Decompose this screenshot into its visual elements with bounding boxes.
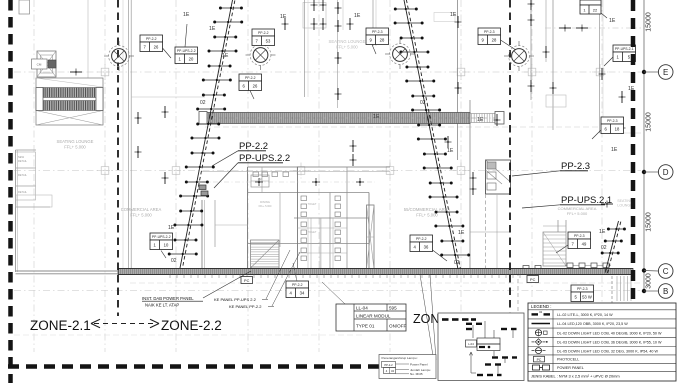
- svg-text:PC: PC: [530, 278, 536, 282]
- svg-text:1E: 1E: [373, 114, 380, 120]
- svg-text:FFL+ 5.000: FFL+ 5.000: [259, 205, 272, 208]
- svg-text:02: 02: [601, 245, 607, 251]
- detail dashes lower: [485, 363, 501, 365]
- label PP-2.2: [212, 141, 268, 166]
- photocell PC box left: [241, 277, 253, 284]
- wall verticals top-centre: [88, 0, 376, 108]
- note KE PANEL PP-UPS 2.2: [214, 297, 268, 302]
- svg-text:15000: 15000: [646, 212, 653, 232]
- grid markers: [97, 64, 608, 179]
- leader PP-2-2 mid: [250, 91, 254, 100]
- svg-text:KE PANEL PP-UPS 2.2: KE PANEL PP-UPS 2.2: [214, 297, 257, 302]
- svg-text:LEGEND :: LEGEND :: [531, 304, 552, 309]
- svg-text:FFL+ 5.000: FFL+ 5.000: [336, 45, 358, 50]
- detail box type-01 diagram: [438, 313, 524, 381]
- panel box PP-2-2 mid: [239, 74, 262, 91]
- leader PP-2-3 lower: [556, 245, 568, 253]
- panel box PP-2-3 right: [478, 28, 501, 45]
- svg-text:53: 53: [266, 39, 271, 44]
- svg-text:PP-UPS-2-1: PP-UPS-2-1: [615, 47, 634, 51]
- elevator shaft: [37, 51, 56, 77]
- svg-text:02: 02: [454, 260, 460, 266]
- detail bold dashes top: [442, 318, 476, 321]
- area text commercial left: [121, 207, 162, 218]
- travelator band upper: [199, 112, 504, 125]
- svg-text:DL-05 DOWN LIGHT LED COB, 32: DL-05 DOWN LIGHT LED COB, 32 DEG, 3000 K…: [557, 349, 658, 353]
- svg-text:1E: 1E: [354, 13, 361, 19]
- band tick marks: [170, 275, 534, 279]
- upper lights line: [545, 27, 641, 29]
- svg-text:INST. DAB POWER PANEL: INST. DAB POWER PANEL: [142, 296, 194, 301]
- dimension line right: [642, 0, 659, 293]
- legend box: [528, 303, 676, 381]
- svg-text:36: 36: [424, 245, 429, 250]
- svg-text:PC: PC: [244, 279, 250, 283]
- center room walls: [202, 167, 390, 269]
- grid horizontal faint line below band: [130, 282, 640, 284]
- zone boundary dashed line x118: [117, 0, 119, 316]
- svg-text:18: 18: [615, 127, 620, 132]
- note INST DAB POWER PANEL: [142, 296, 203, 308]
- legend symbol power panel: [533, 365, 550, 370]
- top-left corner room: [19, 0, 30, 14]
- legend texts: [557, 313, 662, 370]
- legend symbol LL-02: [532, 310, 551, 315]
- staircase center: [251, 240, 280, 268]
- svg-text:PP-2-3: PP-2-3: [484, 30, 495, 34]
- wall center-right verticals: [458, 0, 554, 268]
- wall top horizontal: [131, 96, 205, 98]
- svg-text:595: 595: [389, 306, 397, 311]
- panel box PP-2-3 above legend: [571, 285, 594, 302]
- svg-text:CM: CM: [37, 63, 42, 67]
- svg-text:No. MCB: No. MCB: [410, 372, 423, 376]
- zone arrow: [91, 319, 159, 328]
- right upper room lines: [543, 95, 566, 232]
- panel target marks: [199, 185, 208, 196]
- leader PP-2-3 right: [501, 40, 517, 50]
- wall light fixtures: [70, 0, 626, 208]
- grid horizontal line B: [14, 290, 640, 292]
- area text seating lounge left: [57, 139, 94, 150]
- leader lines to notes: [203, 250, 436, 360]
- svg-text:NEW: NEW: [18, 155, 25, 159]
- grid horizontal minor line: [205, 126, 600, 128]
- legend symbol LL-04: [532, 323, 551, 325]
- panel box PP-2-2 near diagonal: [410, 235, 433, 252]
- svg-text:49: 49: [582, 242, 587, 247]
- area text seating lounge top: [329, 39, 366, 50]
- svg-text:1E: 1E: [280, 14, 287, 20]
- svg-text:TOILET: TOILET: [308, 231, 317, 234]
- legend symbol PC: [534, 356, 545, 362]
- svg-text:FFL+ 5.000: FFL+ 5.000: [64, 145, 86, 150]
- svg-text:PP-2-2: PP-2-2: [146, 37, 157, 41]
- fixture tag labels: [168, 12, 635, 266]
- svg-text:PP-2-2: PP-2-2: [416, 237, 427, 241]
- svg-text:3000: 3000: [646, 273, 653, 289]
- svg-text:LL-04 LED,120 OBB, 3000 K, IP: LL-04 LED,120 OBB, 3000 K, IP20, 23,5 W: [557, 322, 628, 326]
- svg-text:C: C: [663, 267, 669, 276]
- detail dashes row2: [466, 323, 482, 325]
- border dashed right x633: [631, 0, 636, 300]
- panel box top-right partial: [580, 0, 607, 18]
- svg-text:02: 02: [420, 100, 426, 106]
- svg-text:D: D: [663, 168, 669, 177]
- panel box PP-2-2 (grid B2): [140, 35, 163, 52]
- diagonal wall right with lights: [394, 0, 471, 269]
- dashed partition below band: [517, 272, 519, 313]
- grid bubble E: [658, 65, 673, 80]
- photocell PC box right: [527, 276, 539, 283]
- note KE PANEL PP-2.2: [229, 304, 274, 309]
- toilet fixtures: [253, 172, 341, 261]
- panel box PP-UPS-2-1 top right: [613, 45, 636, 62]
- svg-text:02: 02: [539, 310, 543, 314]
- svg-text:PP-2-3: PP-2-3: [607, 119, 618, 123]
- escalator block: [36, 78, 103, 125]
- leader PP-UPS upper: [185, 24, 187, 47]
- column pilaster: [367, 205, 375, 269]
- small room labels: [259, 200, 317, 234]
- panel box PP-2-3 grid E: [601, 117, 624, 134]
- svg-text:RETAIL: RETAIL: [18, 190, 27, 194]
- svg-text:B: B: [663, 287, 668, 296]
- svg-text:PP-UPS.2.2: PP-UPS.2.2: [239, 153, 290, 164]
- legend symbol DL-05: [532, 348, 546, 354]
- legend symbol DL-03: [532, 339, 548, 345]
- label PP-2.3: [512, 161, 590, 176]
- grid vertical lines: [34, 0, 602, 352]
- svg-text:L-04: L-04: [468, 342, 474, 346]
- detail dashes bottom: [477, 374, 502, 376]
- svg-text:PP-UPS.2.1: PP-UPS.2.1: [561, 195, 612, 206]
- panel box PP-2-2 above column: [252, 29, 275, 46]
- svg-text:1E: 1E: [447, 148, 454, 154]
- svg-text:TOILET: TOILET: [308, 203, 317, 206]
- diagonal wall far-right with lights: [601, 221, 626, 274]
- panel box PP-2-3 lower: [568, 232, 591, 249]
- svg-text:Penerangan/Grup Lampu :: Penerangan/Grup Lampu :: [382, 356, 419, 360]
- svg-text:PP-2-2: PP-2-2: [292, 283, 303, 287]
- area text commercial mid: [404, 207, 451, 218]
- svg-text:PP-2.3: PP-2.3: [561, 161, 590, 172]
- right rooms walls: [470, 194, 510, 269]
- svg-text:ON/OFF: ON/OFF: [389, 324, 407, 329]
- wall left corridor double line: [123, 0, 131, 270]
- svg-text:DINING: DINING: [260, 200, 270, 204]
- column K4: [504, 41, 534, 71]
- svg-text:Power Panel: Power Panel: [410, 362, 428, 366]
- leader PP-2-2 near diagonal: [433, 250, 448, 261]
- wall right edge verticals: [600, 0, 642, 133]
- svg-text:1E: 1E: [477, 117, 484, 123]
- svg-text:55/COMMERCIAL AREA: 55/COMMERCIAL AREA: [404, 207, 451, 212]
- grid horizontal line E: [14, 71, 641, 73]
- svg-text:TYPE 01: TYPE 01: [356, 324, 375, 329]
- svg-text:PP-2-3: PP-2-3: [577, 287, 588, 291]
- svg-text:28: 28: [492, 38, 497, 43]
- leader for PP-2-2 B2: [163, 48, 172, 58]
- svg-text:34: 34: [300, 291, 305, 296]
- panel box PP-UPS-2-2 upper: [175, 47, 198, 64]
- svg-text:FFL+ 5.000: FFL+ 5.000: [130, 213, 152, 218]
- svg-text:02: 02: [200, 100, 206, 106]
- svg-text:PP-2-3: PP-2-3: [372, 30, 383, 34]
- svg-text:LL-02 LITE-L, 3000 K, IP20, 1: LL-02 LITE-L, 3000 K, IP20, 14 W: [557, 313, 613, 317]
- column K2: [246, 40, 276, 70]
- column K1: [104, 41, 134, 71]
- svg-text:E: E: [663, 68, 668, 77]
- svg-text:LL-04: LL-04: [356, 306, 368, 311]
- panel box PP-UPS-2-2 lower: [150, 233, 173, 250]
- top small room with lights: [303, 3, 455, 29]
- svg-text:20: 20: [189, 57, 194, 62]
- svg-text:RETAIL: RETAIL: [18, 173, 27, 177]
- svg-text:SEATING LOUNGE: SEATING LOUNGE: [329, 39, 366, 44]
- svg-text:JENIS KABEL : NYM 3 x 2,5 mm²: JENIS KABEL : NYM 3 x 2,5 mm² + uPVC Ø 2…: [531, 373, 620, 378]
- svg-text:RETAIL: RETAIL: [18, 159, 27, 163]
- svg-text:1E: 1E: [183, 12, 190, 18]
- svg-text:1E: 1E: [599, 229, 606, 235]
- detail module box: [466, 338, 501, 351]
- svg-text:10: 10: [164, 243, 169, 248]
- right stair block: [543, 232, 566, 266]
- svg-text:PHOTOCELL: PHOTOCELL: [557, 358, 579, 362]
- border dashed left: [8, 0, 13, 383]
- floor edge left plain: [16, 271, 119, 274]
- toilet fixture crosses: [255, 178, 364, 186]
- border dashed bottom: [8, 364, 530, 369]
- callout penerangan grup lampu: [379, 355, 436, 379]
- grid bubble C: [658, 264, 673, 279]
- grid bubble D: [658, 165, 673, 180]
- svg-text:02: 02: [171, 258, 177, 264]
- grid horizontal line D: [14, 170, 641, 172]
- svg-text:PP-2-2: PP-2-2: [245, 76, 256, 80]
- lights row above band: [523, 263, 611, 270]
- area text commercial right: [558, 206, 597, 216]
- svg-text:PC: PC: [537, 358, 542, 362]
- svg-text:LINEAR MODUL: LINEAR MODUL: [356, 314, 391, 319]
- leader PP-2-3 grid E: [592, 130, 601, 139]
- svg-text:FFL+ 5.000: FFL+ 5.000: [416, 213, 438, 218]
- legend symbol DL-02: [535, 330, 547, 336]
- svg-text:ZONE-2.2: ZONE-2.2: [161, 318, 222, 333]
- below band right detail: [612, 276, 631, 310]
- svg-text:1E: 1E: [611, 147, 618, 153]
- svg-text:FFL+ 5.000: FFL+ 5.000: [567, 211, 588, 216]
- detail connectors: [473, 321, 513, 338]
- svg-text:15000: 15000: [646, 12, 653, 32]
- label PP-UPS.2.2: [214, 153, 290, 188]
- detail dashes row3: [466, 328, 517, 330]
- svg-text:1E: 1E: [450, 12, 457, 18]
- svg-text:ZONE-2.1: ZONE-2.1: [30, 318, 91, 333]
- grid horizontal faint line lower: [14, 334, 365, 336]
- leader PP-2-3 left: [372, 45, 376, 55]
- zone boundary dashed line x510: [509, 0, 511, 318]
- svg-text:PP-2-2: PP-2-2: [258, 31, 269, 35]
- svg-text:26: 26: [154, 45, 159, 50]
- svg-text:53 W: 53 W: [582, 295, 592, 300]
- room service boxes: [251, 175, 269, 187]
- svg-text:1E: 1E: [209, 26, 216, 32]
- svg-text:DL-03 DOWN LIGHT LED COB, 36: DL-03 DOWN LIGHT LED COB, 36 DEG/B, 3000…: [557, 341, 662, 345]
- svg-text:SEATING: SEATING: [617, 199, 633, 203]
- svg-text:34: 34: [391, 369, 394, 373]
- panel box PP-2-3 left: [366, 28, 389, 45]
- column K3: [385, 39, 415, 69]
- svg-text:PP-2-3: PP-2-3: [574, 234, 585, 238]
- svg-text:1E: 1E: [609, 18, 616, 24]
- svg-text:PP-2.2: PP-2.2: [239, 141, 268, 152]
- panel box PP-2-2 bottom: [286, 281, 309, 298]
- svg-text:15000: 15000: [646, 112, 653, 132]
- svg-text:COMMERCIAL AREA: COMMERCIAL AREA: [121, 207, 162, 212]
- table LL-04 linear module: [336, 304, 407, 331]
- svg-text:KE PANEL PP-2.2: KE PANEL PP-2.2: [229, 304, 262, 309]
- area text seating right edge: [617, 199, 633, 208]
- floor edge band: [118, 269, 633, 275]
- svg-text:1E: 1E: [458, 230, 465, 236]
- svg-text:26: 26: [253, 84, 258, 89]
- leader PP-UPS lower: [161, 251, 166, 259]
- svg-text:1E: 1E: [168, 225, 175, 231]
- svg-text:NAIK KE LT. ATAP: NAIK KE LT. ATAP: [145, 303, 179, 308]
- svg-text:POWER PANEL: POWER PANEL: [557, 366, 584, 370]
- svg-text:28: 28: [380, 38, 385, 43]
- leader PP-UPS-2-1: [604, 57, 613, 66]
- svg-text:PP-UPS-2-2: PP-UPS-2-2: [177, 49, 196, 53]
- svg-text:22: 22: [593, 8, 598, 13]
- svg-text:SEATING LOUNGE: SEATING LOUNGE: [57, 139, 94, 144]
- detail dashes mid-right: [492, 356, 517, 358]
- label PP-UPS.2.1: [522, 195, 612, 208]
- detail left feeder: [469, 351, 505, 374]
- diagonal wall left with lights: [168, 0, 243, 268]
- svg-text:JAN: JAN: [258, 178, 263, 181]
- svg-text:PP-2-2: PP-2-2: [384, 363, 393, 367]
- svg-text:DL-02 DOWN LIGHT LED COB, 40: DL-02 DOWN LIGHT LED COB, 40 DEG/B, 3000…: [557, 331, 662, 335]
- svg-text:PP-UPS-2-2: PP-UPS-2-2: [152, 235, 171, 239]
- svg-text:1E: 1E: [222, 53, 229, 59]
- electrical room dashed: [486, 160, 511, 194]
- lobby boxes: [32, 59, 57, 69]
- grid bubble B: [658, 284, 673, 299]
- left wall rooms: [16, 150, 53, 272]
